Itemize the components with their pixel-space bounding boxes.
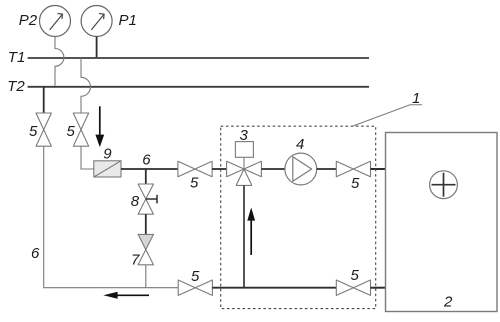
return pipe: left riser and bottom run (thin) xyxy=(44,146,178,288)
svg-text:3: 3 xyxy=(240,127,249,144)
boiler 2 (box) xyxy=(386,133,498,312)
supply pipe valve to three-way valve xyxy=(212,168,227,170)
svg-text:P1: P1 xyxy=(119,12,137,29)
shut-off valve 5 (right, on T1 branch) xyxy=(73,113,88,146)
valve 7 (top cone shaded) xyxy=(138,234,153,264)
actuator stem xyxy=(243,157,245,169)
svg-text:9: 9 xyxy=(103,145,112,162)
gauge P2 xyxy=(40,6,71,37)
svg-text:8: 8 xyxy=(131,193,140,210)
flow arrow (down) xyxy=(95,106,104,147)
valve 5 (return, bottom-right) xyxy=(336,280,370,295)
svg-text:T1: T1 xyxy=(8,49,26,66)
gauge P1 xyxy=(81,6,112,37)
pipe from right valve to strainer xyxy=(81,146,94,169)
svg-text:T2: T2 xyxy=(7,78,25,95)
svg-text:P2: P2 xyxy=(19,12,38,29)
supply pipe three-way valve to pump xyxy=(261,168,285,170)
valve 5 (supply, right of pump) xyxy=(336,161,370,176)
return pipe to boiler xyxy=(371,287,386,289)
strainer 9 xyxy=(94,161,121,177)
mixing unit boundary (dashed box) xyxy=(221,126,376,308)
svg-text:5: 5 xyxy=(190,175,199,192)
flow arrow (left) on return xyxy=(103,292,149,299)
shut-off valve 5 (left, on T2 branch) xyxy=(36,113,51,146)
svg-text:5: 5 xyxy=(351,267,360,284)
three-way valve 3 xyxy=(227,161,262,185)
impulse pipe from P1 to T1 xyxy=(96,37,98,58)
supply pipe strainer to valve 5 xyxy=(121,168,178,170)
svg-text:6: 6 xyxy=(142,152,151,169)
svg-text:2: 2 xyxy=(443,293,453,310)
flow arrow (up) xyxy=(247,208,255,256)
svg-text:1: 1 xyxy=(412,90,420,107)
valve 5 (return, bottom-left of box) xyxy=(178,280,212,295)
pipe valve7 to bottom run xyxy=(145,265,147,288)
burner sight circle xyxy=(430,171,458,199)
svg-text:5: 5 xyxy=(67,123,76,140)
pipe from T1 down with hop over T2 xyxy=(81,58,91,113)
pipe T1 xyxy=(28,57,369,59)
svg-text:4: 4 xyxy=(296,136,304,153)
supply pipe pump to valve xyxy=(317,168,337,170)
impulse pipe from P2 to T2 with hop over T1 xyxy=(55,37,64,86)
actuator 3 xyxy=(235,142,253,158)
pipe T2 xyxy=(28,86,369,88)
valve 5 (supply, horizontal) xyxy=(178,161,212,176)
svg-text:5: 5 xyxy=(191,268,200,285)
handle of valve 8 xyxy=(146,195,157,204)
svg-text:5: 5 xyxy=(351,175,360,192)
supply pipe to boiler xyxy=(371,168,386,170)
svg-text:5: 5 xyxy=(29,123,38,140)
cross in circle xyxy=(432,173,456,197)
svg-text:7: 7 xyxy=(131,251,140,268)
pipe three-way valve down to return xyxy=(243,185,245,287)
pipe from T2 down to left valve xyxy=(43,87,45,113)
callout leader for label 1 xyxy=(353,105,422,126)
junction node 6 stub down xyxy=(145,169,147,184)
pipe valve8 to valve7 xyxy=(145,214,147,234)
valve 8 (with handle) xyxy=(138,184,153,214)
svg-text:6: 6 xyxy=(31,245,40,262)
needle of gauge P2 xyxy=(50,14,63,30)
pump 4 xyxy=(285,153,317,185)
needle of gauge P1 xyxy=(91,14,104,30)
return pipe inside unit (dark) xyxy=(212,287,336,289)
